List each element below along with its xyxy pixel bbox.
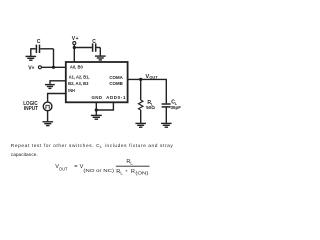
note text line 1	[11, 143, 174, 158]
svg-text:A1, A2, B1,: A1, A2, B1,	[69, 75, 90, 80]
svg-text:Repeat test for other switches: Repeat test for other switches. CL inclu…	[11, 143, 174, 149]
svg-text:=: =	[74, 164, 77, 170]
capacitor C1 (left bypass cap)	[31, 45, 54, 56]
wire: C1 down to V+ node	[53, 49, 55, 68]
svg-text:OUT: OUT	[59, 166, 68, 171]
svg-text:(NO or NC): (NO or NC)	[83, 168, 115, 173]
svg-text:+: +	[125, 169, 128, 174]
resistor RL 50 ohm	[139, 100, 143, 110]
label RL 50ohm	[146, 100, 155, 110]
wire: top V+ node to C2	[74, 47, 92, 49]
capacitor C2 (top bypass cap)	[93, 43, 101, 55]
junction: GND/ADD0-1 node	[95, 108, 98, 111]
junction: left V+ node	[52, 66, 55, 69]
ground (RL)	[135, 123, 146, 127]
ground (below C2)	[95, 56, 106, 60]
IC U1 (analog switch / multiplexer)	[66, 62, 128, 102]
pulse waveform glyph	[45, 105, 50, 108]
svg-text:V+: V+	[72, 36, 79, 42]
wire: top V+ terminal down to chip V+ pin	[73, 45, 75, 63]
wire: INH pin to logic input source	[48, 94, 67, 103]
capacitor CL 35pF	[162, 104, 171, 107]
fraction denominator RL + RON	[116, 169, 149, 176]
wire: GND pin to ground	[95, 102, 97, 115]
wire: left V+ terminal to A0,B0 pin	[41, 66, 66, 68]
wire: logic source to ground	[47, 111, 49, 122]
svg-text:COMA: COMA	[109, 75, 123, 80]
label VOUT	[145, 74, 158, 80]
formula VOUT = V(NO or NC) x RL/(RL+RON)	[55, 159, 133, 173]
svg-text:C: C	[92, 39, 96, 45]
svg-text:INH: INH	[68, 88, 75, 93]
svg-text:50Ω: 50Ω	[146, 105, 155, 110]
ground (GND pin)	[91, 115, 102, 119]
ground (address pins)	[45, 85, 55, 89]
svg-text:OUT: OUT	[149, 75, 158, 79]
pin label A1, A2, B1, B2, A3, B3	[68, 75, 89, 87]
wire: address pins A1..B3 to ground	[50, 81, 67, 84]
svg-text:35pF: 35pF	[171, 105, 181, 110]
svg-text:GND: GND	[92, 95, 103, 100]
wire: ADD0-1 pin to GND node	[96, 102, 113, 110]
svg-text:B2, A3, B3: B2, A3, B3	[68, 81, 89, 86]
label LOGIC INPUT	[23, 101, 38, 112]
svg-text:(ON): (ON)	[135, 170, 149, 175]
svg-text:ADD0-1: ADD0-1	[106, 95, 126, 100]
ground (logic source)	[43, 122, 54, 126]
svg-text:L: L	[120, 170, 123, 175]
svg-text:V+: V+	[28, 65, 34, 71]
junction: top V+ node	[73, 46, 76, 49]
logic input source (pulse generator)	[43, 102, 52, 111]
svg-text:capacitance.: capacitance.	[11, 152, 38, 158]
label CL 35pF	[171, 99, 181, 110]
wire: RL to ground	[140, 110, 142, 123]
svg-text:C: C	[37, 39, 41, 45]
ground (below C1)	[26, 56, 37, 60]
svg-text:R: R	[131, 169, 135, 175]
junction: VOUT node	[139, 78, 142, 81]
svg-text:L: L	[130, 160, 133, 165]
svg-text:COMB: COMB	[109, 81, 122, 86]
fraction bar	[116, 165, 150, 167]
wire: VOUT node down to RL	[140, 79, 142, 100]
svg-text:A0, B0: A0, B0	[70, 64, 83, 69]
wire: COMA/COMB output to VOUT node	[129, 79, 167, 103]
svg-text:INPUT: INPUT	[24, 106, 38, 112]
wire: CL to ground	[165, 107, 167, 123]
ground (CL)	[161, 123, 172, 127]
